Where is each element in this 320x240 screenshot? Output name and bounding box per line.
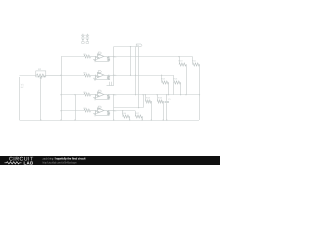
node junction xyxy=(180,94,181,95)
node junction xyxy=(108,56,109,57)
wire OA1 fb left xyxy=(95,57,97,62)
resistor R15 xyxy=(157,100,163,103)
node junction xyxy=(143,94,144,95)
battery V2 xyxy=(81,34,85,41)
resistor R13 xyxy=(174,81,181,84)
wire stage3 opamp in xyxy=(91,94,98,96)
resistor R7 xyxy=(107,95,110,99)
wire OA4 fb bottom xyxy=(96,115,109,117)
wire bottom rail xyxy=(20,120,200,122)
wire stub y85.6 xyxy=(107,85,114,87)
wire s4 vert link xyxy=(143,95,145,108)
wire row3 down a xyxy=(151,101,153,120)
wire C1 top lead xyxy=(166,95,168,101)
wire OA4 plus drop xyxy=(95,112,97,114)
node junction xyxy=(142,119,143,120)
resistor R8 xyxy=(84,109,91,112)
net flag battery V2 xyxy=(82,41,85,44)
node junction xyxy=(199,94,200,95)
resistor R6 xyxy=(107,76,110,80)
wire stage4 input xyxy=(61,110,84,112)
ground xyxy=(93,114,97,116)
svg-text:LAB: LAB xyxy=(24,160,34,165)
wire stub b xyxy=(111,82,113,86)
wire row4 drop R xyxy=(135,111,137,116)
wire row2 down b xyxy=(180,82,182,95)
wire OA3 output xyxy=(104,94,114,96)
potentiometer R2 wiper arrow xyxy=(40,77,42,80)
node junction xyxy=(157,94,158,95)
wire row2 drop R xyxy=(173,75,175,81)
wire row2 drop L xyxy=(161,75,163,81)
node junction xyxy=(166,94,167,95)
wire row3 drop L xyxy=(145,95,147,100)
node junction xyxy=(95,56,96,57)
wire OA2 plus stub xyxy=(95,76,98,78)
node junction xyxy=(113,94,114,95)
resistor R2 element xyxy=(37,74,46,77)
node junction xyxy=(130,75,131,76)
wire OA4 fb left xyxy=(95,111,97,116)
wire bus s1 right xyxy=(114,56,193,58)
wire OA4 fb right up xyxy=(108,110,110,113)
wire vert d long xyxy=(138,47,140,108)
wire row3 drop R xyxy=(157,95,159,100)
wire OA3 fb bottom xyxy=(96,99,109,101)
wire stub a xyxy=(109,82,111,86)
node junction xyxy=(60,119,61,120)
wire OA2 fb right up xyxy=(108,74,110,77)
wire OA3 plus stub xyxy=(95,95,98,97)
wire bus s4 right xyxy=(114,110,135,112)
node junction xyxy=(108,110,109,111)
ground xyxy=(93,60,97,62)
wire vert a xyxy=(130,47,132,76)
resistor R4 xyxy=(84,93,91,96)
node junction xyxy=(113,56,114,57)
node junction xyxy=(60,94,61,95)
wire OA1 plus drop xyxy=(95,58,97,60)
node junction xyxy=(74,94,75,95)
node junction xyxy=(122,110,123,111)
wire right edge down xyxy=(199,95,201,120)
wire row4 down b xyxy=(142,116,144,120)
wire row2 down c xyxy=(173,82,175,95)
circuit schematic canvas xyxy=(0,0,220,165)
op-amp OA2 xyxy=(98,72,104,77)
net flag stage3 xyxy=(98,90,101,92)
op-amp OA4 xyxy=(98,108,104,113)
wire OA3 plus drop xyxy=(95,96,97,98)
resistor R17 xyxy=(135,115,142,118)
op-amp OA3 xyxy=(98,92,104,97)
wire row2 down a xyxy=(168,82,170,95)
footer bar xyxy=(0,156,220,165)
node junction xyxy=(185,94,186,95)
wire stage1 input xyxy=(61,56,84,58)
resistor R3 xyxy=(84,74,91,77)
node junction xyxy=(95,110,96,111)
node junction xyxy=(95,75,96,76)
node junction xyxy=(151,119,152,120)
node junction xyxy=(135,75,136,76)
wire OA1 plus stub xyxy=(95,57,98,59)
wire bus s3 right xyxy=(114,94,199,96)
node junction xyxy=(60,110,61,111)
wire rail x113.7 upper xyxy=(113,47,115,86)
capacitor C1 xyxy=(165,101,169,102)
ground xyxy=(93,78,97,80)
wire OA3 fb right up xyxy=(108,94,110,97)
wire row3 down b xyxy=(163,101,165,120)
node junction xyxy=(130,46,131,47)
svg-text:C1: C1 xyxy=(168,98,170,101)
svg-text:1k: 1k xyxy=(114,56,116,59)
node junction xyxy=(161,75,162,76)
node junction xyxy=(135,94,136,95)
wire input to pot xyxy=(20,75,37,77)
node junction xyxy=(95,94,96,95)
node junction xyxy=(60,75,61,76)
wire C1 bottom lead xyxy=(166,103,168,120)
resistor R5 xyxy=(107,57,110,61)
wire stage2 input xyxy=(61,75,84,77)
op-amp OA1 xyxy=(98,54,104,59)
wire top net xyxy=(114,46,137,48)
wire OA2 fb bottom xyxy=(96,79,109,81)
wire rail x75 xyxy=(75,95,77,120)
potentiometer R2 box xyxy=(36,71,46,77)
wire rail x113.7 lower xyxy=(113,95,115,120)
wire OA1 fb right up xyxy=(108,56,110,59)
svg-text:1k: 1k xyxy=(114,94,116,97)
node junction xyxy=(108,94,109,95)
wire OA1 fb bottom xyxy=(96,61,109,63)
node junction xyxy=(113,110,114,111)
wire OA3 fb left xyxy=(95,95,97,100)
net flag stage2 xyxy=(98,71,101,73)
wire stage1 opamp in xyxy=(91,56,98,58)
wire OA4 plus stub xyxy=(95,111,98,113)
wire pot out xyxy=(45,75,61,77)
node junction xyxy=(129,119,130,120)
node junction xyxy=(168,94,169,95)
wire pot wiper drop xyxy=(40,80,42,120)
resistor R12 xyxy=(162,81,169,84)
wire OA2 plus drop xyxy=(95,76,97,78)
svg-text:1k: 1k xyxy=(114,110,116,113)
wire stage3 input xyxy=(61,94,84,96)
resistor R10 xyxy=(179,63,186,66)
node junction xyxy=(138,107,139,108)
net flag V+ xyxy=(136,44,142,47)
battery V3 xyxy=(86,34,90,41)
node junction xyxy=(145,94,146,95)
wire OA1 output xyxy=(104,56,114,58)
wire bus s2 right xyxy=(114,75,174,77)
resistor R11 xyxy=(193,63,200,66)
wire stage4 opamp in xyxy=(91,110,98,112)
node junction xyxy=(40,119,41,120)
resistor R14 xyxy=(145,100,151,103)
net flag battery V3 xyxy=(86,41,89,44)
node junction xyxy=(163,119,164,120)
resistor R16 xyxy=(123,115,130,118)
ground xyxy=(93,98,97,100)
wire OA2 output xyxy=(104,75,114,77)
wire row4 down a xyxy=(129,116,131,120)
net flag stage4 xyxy=(98,106,101,108)
wire vert b xyxy=(135,47,137,95)
wire left rail x61 xyxy=(61,57,63,120)
wire OA4 output xyxy=(104,110,114,112)
wire row4 drop L xyxy=(122,111,124,116)
wire row1 down b xyxy=(199,64,201,95)
svg-text:http://circuitlab.com/c/e5b48u: http://circuitlab.com/c/e5b48uvbaqm xyxy=(43,160,77,164)
wire OA2 fb left xyxy=(95,75,97,80)
wire V1 drop xyxy=(19,77,21,120)
node junction xyxy=(113,75,114,76)
resistor R9 xyxy=(107,111,110,115)
CircuitLab logo resistor zigzag xyxy=(5,162,22,164)
net flag stage1 xyxy=(98,52,101,54)
wire s4 upper link xyxy=(114,107,143,109)
node junction xyxy=(178,56,179,57)
node junction xyxy=(113,119,114,120)
wire stage2 opamp in xyxy=(91,75,98,77)
resistor R1 xyxy=(84,55,91,58)
node junction xyxy=(166,119,167,120)
wire row1 down a xyxy=(186,64,188,95)
node junction xyxy=(108,75,109,76)
wire row1 drop L xyxy=(179,57,181,64)
wire row1 drop R xyxy=(192,57,194,64)
node junction xyxy=(74,119,75,120)
